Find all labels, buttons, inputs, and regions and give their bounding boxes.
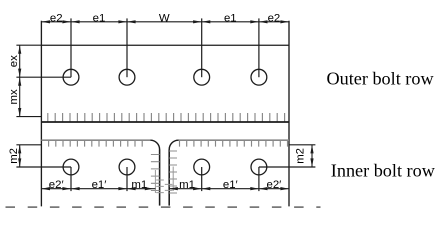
outer bolt circle 4: [251, 69, 267, 85]
weld hatch ticks below flange left: [49, 141, 143, 147]
arrows at B3 bottom: [193, 187, 202, 190]
outer bolt circle 1: [63, 69, 79, 85]
web weld toe line left: [154, 170, 156, 193]
arrows at B4 bottom: [250, 187, 259, 190]
svg-text:Inner bolt row: Inner bolt row: [331, 161, 436, 181]
web right wall: [168, 150, 170, 206]
outer bolt circle 3: [194, 69, 210, 85]
outer bolt row line to circle: [16, 76, 71, 78]
inner bolt circle 2: [119, 159, 135, 175]
svg-text:e2: e2: [50, 12, 63, 24]
inner bolt stem B4: [258, 167, 260, 191]
beam flange bottom line right segment: [179, 139, 290, 141]
web weld ticks left: [151, 155, 160, 191]
arrows at B1 bottom: [62, 187, 71, 190]
svg-text:Outer bolt row: Outer bolt row: [327, 68, 435, 88]
bolt centerline extension B4 top: [258, 18, 260, 77]
m2 left dimension line: [19, 145, 21, 167]
web weld cross ticks left: [156, 180, 164, 193]
svg-text:e1: e1: [93, 12, 106, 24]
svg-text:W: W: [159, 12, 170, 24]
web right fillet: [169, 140, 178, 149]
m2 right dimension line: [311, 145, 313, 167]
m2 right arrows: [310, 145, 313, 154]
bottom dim line e1'-e2' right: [202, 188, 289, 190]
dimension line top row (e2,e1,W,e1,e2): [41, 21, 289, 23]
arrows at B1 top: [62, 20, 71, 23]
inner bolt stem B3: [201, 167, 203, 191]
dashed cut line: [6, 206, 321, 208]
svg-text:e2: e2: [268, 12, 281, 24]
arrow e2' left: [41, 187, 50, 190]
inner bolt circle 1: [63, 159, 79, 175]
inner bolt row line to circle right: [259, 166, 316, 168]
bolt centerline extension B1 top: [70, 18, 72, 77]
inner bolt circle 4: [251, 159, 267, 175]
web weld ticks right: [169, 151, 177, 193]
m2 left arrows: [18, 145, 21, 154]
svg-text:m1: m1: [131, 179, 147, 191]
inner bolt stem B2: [126, 167, 128, 191]
m2 right top extension: [289, 144, 315, 146]
svg-text:m2: m2: [295, 148, 307, 164]
svg-text:ex: ex: [8, 55, 20, 67]
web weld toe line right: [172, 167, 174, 192]
ex arrows: [18, 45, 21, 54]
arrows at B3 top: [193, 20, 202, 23]
inner bolt row line to circle left: [16, 166, 71, 168]
web left fillet: [150, 140, 159, 149]
beam flange bottom line left segment: [41, 139, 150, 141]
bottom dim line e2'-e1': [41, 188, 127, 190]
svg-text:e1′: e1′: [223, 179, 238, 191]
arrows at B2 bottom: [118, 187, 127, 190]
svg-text:mx: mx: [8, 89, 20, 104]
m2 left top extension: [16, 144, 41, 146]
arrow e2 right: [280, 20, 289, 23]
weld hatch ticks below flange right: [180, 141, 288, 147]
beam flange top line: [41, 121, 289, 123]
arrows at B4 top: [250, 20, 259, 23]
arrows at B2 top: [118, 20, 127, 23]
plate left edge: [40, 21, 42, 207]
svg-text:e1′: e1′: [92, 179, 107, 191]
plate top edge: [41, 44, 289, 46]
bolt centerline extension B2 top: [126, 18, 128, 77]
outer bolt circle 2: [119, 69, 135, 85]
bottom dim line m1 right: [169, 188, 202, 190]
bottom dim line m1 left: [127, 188, 156, 190]
ex top extension line: [16, 44, 41, 46]
svg-text:e2′: e2′: [266, 179, 281, 191]
svg-text:m2: m2: [8, 148, 20, 164]
mx arrows: [18, 77, 21, 86]
arrow e2 left: [41, 20, 50, 23]
bolt centerline extension B3 top: [201, 18, 203, 77]
inner bolt stem B1: [70, 167, 72, 191]
svg-text:m1: m1: [179, 179, 195, 191]
arrow m1 left at web: [145, 187, 154, 190]
svg-text:e1: e1: [224, 12, 237, 24]
web weld cross ticks right: [165, 184, 173, 190]
web left wall: [159, 150, 161, 206]
inner bolt circle 3: [194, 159, 210, 175]
weld hatch ticks above beam flange: [48, 113, 285, 122]
arrow m1 right at web: [169, 187, 178, 190]
svg-text:e2′: e2′: [49, 179, 64, 191]
plate right edge: [288, 21, 290, 207]
arrow e2' right: [280, 187, 289, 190]
ex/mx vertical dimension line: [19, 45, 21, 116]
mx bottom extension line: [16, 116, 41, 118]
